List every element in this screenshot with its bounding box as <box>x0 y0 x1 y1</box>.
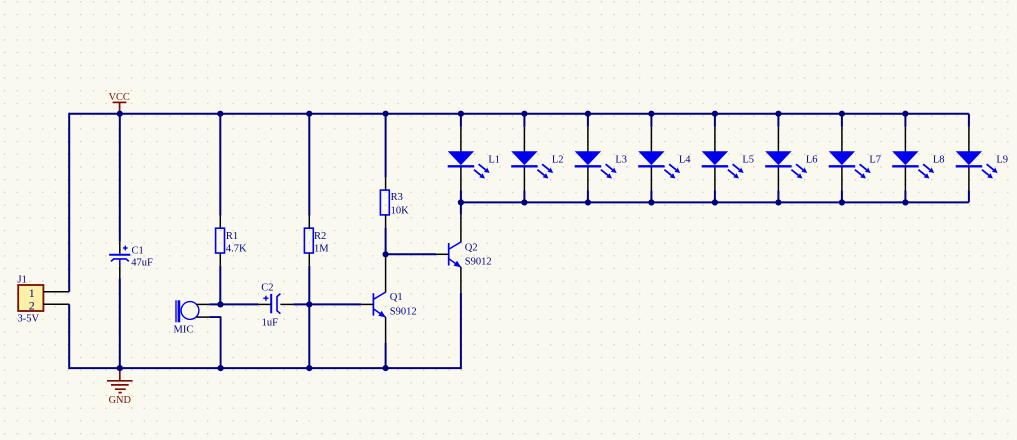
svg-text:4.7K: 4.7K <box>226 244 247 255</box>
svg-text:R3: R3 <box>391 192 403 203</box>
svg-text:2: 2 <box>29 299 35 313</box>
svg-text:Q1: Q1 <box>390 292 403 303</box>
svg-text:L9: L9 <box>996 154 1008 165</box>
svg-text:S9012: S9012 <box>465 257 492 268</box>
svg-text:L6: L6 <box>806 154 818 165</box>
svg-text:R1: R1 <box>226 231 238 242</box>
svg-text:C2: C2 <box>261 283 273 294</box>
svg-text:L8: L8 <box>933 154 945 165</box>
svg-text:1uF: 1uF <box>262 317 279 328</box>
svg-text:C1: C1 <box>132 245 144 256</box>
svg-text:1: 1 <box>29 286 35 300</box>
svg-text:GND: GND <box>109 395 132 406</box>
svg-text:3-5V: 3-5V <box>18 313 40 324</box>
svg-text:L4: L4 <box>679 154 691 165</box>
svg-text:47uF: 47uF <box>131 258 153 269</box>
svg-text:L3: L3 <box>615 154 627 165</box>
svg-text:L2: L2 <box>552 154 564 165</box>
svg-text:R2: R2 <box>314 231 326 242</box>
svg-text:S9012: S9012 <box>390 306 417 317</box>
svg-text:1M: 1M <box>314 244 329 255</box>
svg-text:L1: L1 <box>488 154 500 165</box>
svg-text:J1: J1 <box>18 275 27 286</box>
svg-text:VCC: VCC <box>109 92 130 103</box>
svg-text:10K: 10K <box>391 205 410 216</box>
svg-text:L5: L5 <box>742 154 754 165</box>
svg-text:L7: L7 <box>869 154 881 165</box>
svg-text:Q2: Q2 <box>465 242 478 253</box>
svg-text:MIC: MIC <box>174 324 194 335</box>
